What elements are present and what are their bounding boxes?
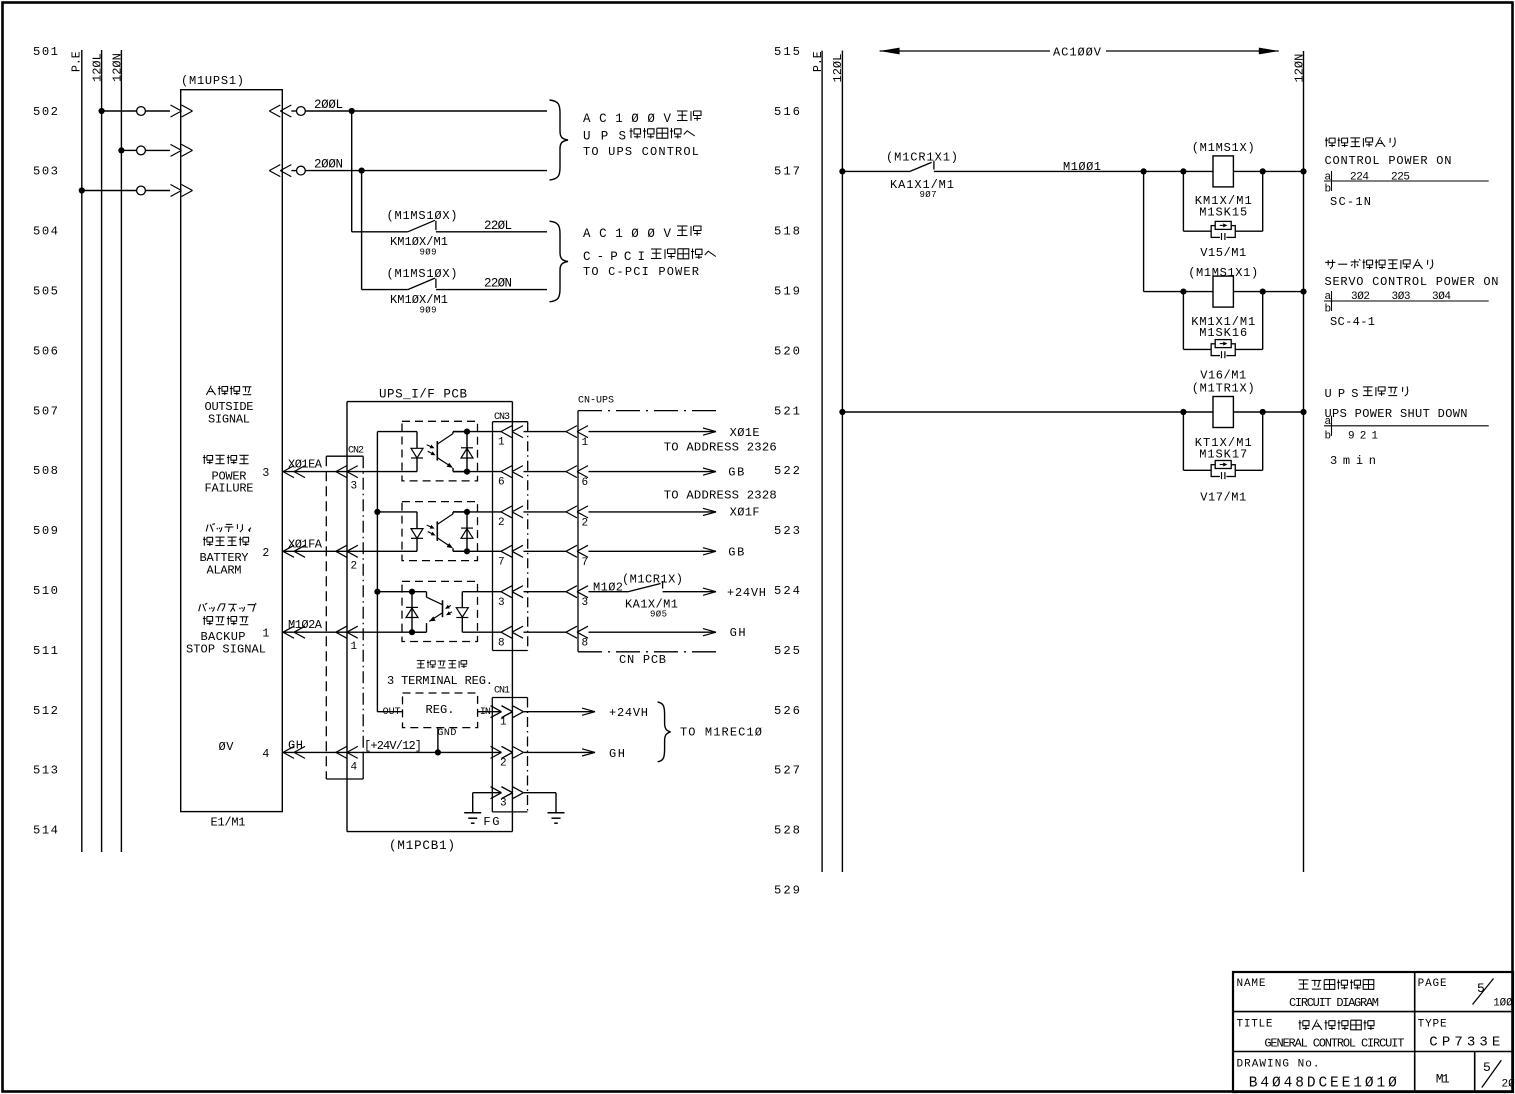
svg-text:GND: GND xyxy=(437,728,456,739)
svg-text:527: 527 xyxy=(774,764,800,778)
arrow into UPS / row 502-503 feed N xyxy=(171,144,193,156)
UPS unit M1UPS1 box xyxy=(181,74,283,830)
svg-text:4: 4 xyxy=(351,761,358,773)
label BATTERY ALARM xyxy=(206,525,208,532)
wire REG GND to GH rail xyxy=(435,728,441,756)
svg-text:M1SK15: M1SK15 xyxy=(1199,206,1247,220)
svg-text:12ØN: 12ØN xyxy=(1292,54,1306,83)
svg-text:9Ø7: 9Ø7 xyxy=(920,190,937,200)
wire GH out CN1 pin2 xyxy=(491,746,596,758)
wire M102A (row 510-511) xyxy=(282,618,426,638)
svg-text:b: b xyxy=(1325,304,1332,316)
bus P.E (right) xyxy=(812,51,825,872)
svg-text:SC-1N: SC-1N xyxy=(1330,195,1371,209)
brace to UPS control xyxy=(550,100,569,180)
svg-text:UPS POWER SHUT DOWN: UPS POWER SHUT DOWN xyxy=(1325,407,1468,421)
svg-text:514: 514 xyxy=(33,824,58,838)
brace to C-PCI power xyxy=(550,221,569,302)
label GB xyxy=(728,465,744,479)
label 3 TERMINAL REG. xyxy=(417,660,425,662)
wire GB (row 510) xyxy=(453,545,716,557)
svg-text:CN3: CN3 xyxy=(494,412,510,423)
svg-text:XØ1FA: XØ1FA xyxy=(288,537,323,551)
wire X01F (row 509) xyxy=(453,506,716,518)
annotation CONTROL POWER ON / SC-1N xyxy=(1325,137,1327,146)
label FG xyxy=(483,815,499,829)
svg-text:(M1MS1X1): (M1MS1X1) xyxy=(1188,266,1258,280)
labels (M1CR1X1) KA1X1/M1 907 xyxy=(886,151,958,201)
svg-text:515: 515 xyxy=(774,45,800,59)
svg-text:6: 6 xyxy=(582,477,589,489)
wire 200L (row 502) xyxy=(291,98,547,112)
svg-text:7: 7 xyxy=(498,556,505,568)
svg-text:M1SK17: M1SK17 xyxy=(1199,448,1247,462)
svg-text:3: 3 xyxy=(582,597,589,609)
svg-text:22ØN: 22ØN xyxy=(484,277,512,291)
AC100V span arrow xyxy=(880,45,1279,59)
svg-text:M1SK16: M1SK16 xyxy=(1199,326,1247,340)
bus 120N (left) xyxy=(110,50,124,852)
svg-text:V15/M1: V15/M1 xyxy=(1200,246,1246,260)
svg-text:2: 2 xyxy=(582,517,589,529)
svg-text:509: 509 xyxy=(33,524,58,538)
relay timer coil M1TR1X KT1X/M1 M1SK17 xyxy=(1192,381,1255,461)
svg-text:7: 7 xyxy=(582,557,589,569)
label M1001 xyxy=(1063,160,1101,174)
svg-text:SIGNAL: SIGNAL xyxy=(208,413,250,427)
svg-text:518: 518 xyxy=(774,225,800,239)
svg-text:TO ADDRESS 2326: TO ADDRESS 2326 xyxy=(664,441,777,455)
svg-text:a: a xyxy=(1325,171,1332,183)
svg-text:UPS: UPS xyxy=(1325,387,1359,401)
title block cell M1 5/20 xyxy=(1436,1060,1515,1091)
svg-text:12ØL: 12ØL xyxy=(831,54,845,83)
arrow into UPS / row 503 feed PE xyxy=(171,185,193,197)
svg-text:503: 503 xyxy=(33,165,58,179)
label BACKUP STOP SIGNAL xyxy=(199,604,201,611)
wire row 503 feed PE xyxy=(82,190,170,192)
svg-text:XØ1EA: XØ1EA xyxy=(288,458,323,472)
svg-text:1: 1 xyxy=(582,437,589,449)
switch KM10X/M1 (220N) xyxy=(362,267,458,316)
wire GH (row 511) xyxy=(462,626,716,638)
svg-text:2: 2 xyxy=(498,517,505,529)
svg-text:1ØØ: 1ØØ xyxy=(1493,998,1513,1010)
wire row 502-503 feed N xyxy=(121,149,170,151)
svg-text:513: 513 xyxy=(33,764,58,778)
svg-text:507: 507 xyxy=(33,404,58,418)
arrow into UPS / row 502 feed L xyxy=(171,105,193,117)
svg-text:b: b xyxy=(1325,184,1332,196)
svg-text:UPS: UPS xyxy=(583,130,626,144)
optocoupler PC2 (battery alarm) xyxy=(377,502,477,561)
wire REG IN to CN1 pin1 +24VH xyxy=(478,706,595,718)
svg-text:512: 512 xyxy=(33,704,58,718)
svg-text:P.E: P.E xyxy=(71,51,84,72)
arrow out of UPS / 200L xyxy=(269,105,291,117)
wire rung 517 left with switch KA1X1/M1 xyxy=(842,161,1183,172)
wire 200N (row 503) xyxy=(291,158,547,172)
svg-text:DRAWING No.: DRAWING No. xyxy=(1237,1059,1320,1071)
bus 120L (left) xyxy=(91,50,105,852)
svg-text:1: 1 xyxy=(498,437,505,449)
svg-text:TO C-PCI POWER: TO C-PCI POWER xyxy=(583,265,699,279)
wire 220N (row 505) xyxy=(436,277,547,291)
svg-text:1: 1 xyxy=(351,641,358,653)
svg-text:519: 519 xyxy=(774,285,800,299)
svg-text:CONTROL POWER ON: CONTROL POWER ON xyxy=(1325,154,1452,168)
wire rung 517 to coil xyxy=(1180,168,1306,174)
surge suppressor V16/M1 xyxy=(1183,292,1262,383)
terminal circle / row 502 feed L xyxy=(137,107,146,116)
junction bus-opto2 xyxy=(374,509,380,515)
wire GB (row 508) xyxy=(453,466,716,478)
title block frame xyxy=(1233,972,1513,1092)
svg-text:524: 524 xyxy=(774,584,800,598)
bus P.E (left) xyxy=(71,50,84,852)
svg-text:TO M1REC1Ø: TO M1REC1Ø xyxy=(680,726,762,740)
switch KM10X/M1 (220L) xyxy=(352,209,458,258)
svg-text:3 TERMINAL REG.: 3 TERMINAL REG. xyxy=(387,674,493,688)
junction on bus / row 503 feed PE xyxy=(79,187,85,193)
label +24VH xyxy=(727,586,766,600)
svg-text:9Ø5: 9Ø5 xyxy=(650,610,667,620)
svg-text:AC1ØØV: AC1ØØV xyxy=(1053,45,1102,59)
svg-text:502: 502 xyxy=(33,105,58,119)
svg-text:(M1MS1X): (M1MS1X) xyxy=(1192,141,1255,155)
junction bus-opto3 xyxy=(374,589,380,595)
svg-text:22ØL: 22ØL xyxy=(484,219,512,233)
svg-text:V16/M1: V16/M1 xyxy=(1200,369,1246,383)
svg-text:CN PCB: CN PCB xyxy=(619,653,666,667)
svg-text:3: 3 xyxy=(500,798,507,810)
svg-text:501: 501 xyxy=(33,45,58,59)
svg-text:2ØØN: 2ØØN xyxy=(314,158,343,172)
svg-text:(M1MS1ØX): (M1MS1ØX) xyxy=(387,209,458,223)
label AC100V power / TO UPS CONTROL xyxy=(583,112,671,126)
svg-text:M1Ø2: M1Ø2 xyxy=(593,581,623,595)
label +24VH (CN1) xyxy=(609,706,648,720)
svg-text:2Ø: 2Ø xyxy=(1502,1079,1515,1091)
svg-text:(M1UPS1): (M1UPS1) xyxy=(181,74,244,88)
labels M102 (M1CR1X) KA1X/M1 905 xyxy=(593,573,683,620)
svg-text:XØ1F: XØ1F xyxy=(730,505,760,519)
surge suppressor V15/M1 xyxy=(1183,171,1262,260)
svg-text:5: 5 xyxy=(1483,1060,1491,1075)
right line-number column 515-529 xyxy=(774,45,800,898)
title block row NAME / CIRCUIT DIAGRAM xyxy=(1237,978,1380,1010)
svg-text:6: 6 xyxy=(498,477,505,489)
relay coil M1MS1X1 KM1X1/M1 M1SK16 xyxy=(1188,266,1258,340)
surge suppressor V17/M1 xyxy=(1183,412,1262,505)
svg-text:M1: M1 xyxy=(1436,1071,1450,1086)
svg-text:(M1MS1ØX): (M1MS1ØX) xyxy=(387,267,458,281)
svg-text:1: 1 xyxy=(500,717,507,729)
svg-text:9Ø9: 9Ø9 xyxy=(420,306,437,316)
regulator REG. box xyxy=(383,693,491,739)
svg-text:9Ø9: 9Ø9 xyxy=(420,248,437,258)
wire rung 519 branch from 517 xyxy=(1144,171,1307,294)
svg-text:TO UPS CONTROL: TO UPS CONTROL xyxy=(583,145,699,159)
svg-text:516: 516 xyxy=(774,105,800,119)
terminal circle / row 503 feed PE xyxy=(137,186,146,195)
svg-text:510: 510 xyxy=(33,584,58,598)
bus 120L (right) xyxy=(831,51,845,872)
junction 120L rung517 xyxy=(839,168,845,174)
wire row 502 feed L xyxy=(102,110,170,112)
svg-text:(M1TR1X): (M1TR1X) xyxy=(1192,381,1255,395)
ground (right) xyxy=(548,813,565,824)
svg-text:OUT: OUT xyxy=(383,707,401,718)
arrow out of UPS / 200N xyxy=(269,165,291,177)
svg-text:SC-4-1: SC-4-1 xyxy=(1330,315,1375,329)
label [+24V/12] xyxy=(364,739,422,753)
svg-text:+24VH: +24VH xyxy=(609,706,648,720)
svg-text:526: 526 xyxy=(774,704,800,718)
svg-text:921: 921 xyxy=(1348,431,1378,443)
svg-text:GB: GB xyxy=(728,546,744,560)
svg-text:2: 2 xyxy=(351,560,358,572)
svg-text:TO ADDRESS 2328: TO ADDRESS 2328 xyxy=(664,488,777,502)
title block cell TYPE CP733E xyxy=(1418,1019,1501,1051)
svg-text:M1ØØ1: M1ØØ1 xyxy=(1063,160,1101,174)
svg-text:525: 525 xyxy=(774,644,800,658)
svg-text:GB: GB xyxy=(728,465,744,479)
svg-text:505: 505 xyxy=(33,285,58,299)
relay coil M1MS1X KM1X/M1 M1SK15 xyxy=(1192,141,1255,220)
svg-text:12ØN: 12ØN xyxy=(110,53,124,82)
junction 200N branch xyxy=(359,168,365,174)
wire X01FA (row 509) xyxy=(282,537,417,557)
svg-text:GH: GH xyxy=(288,738,303,752)
svg-text:528: 528 xyxy=(774,824,800,838)
svg-text:TYPE: TYPE xyxy=(1418,1019,1447,1031)
svg-text:UPS_I/F PCB: UPS_I/F PCB xyxy=(379,388,467,402)
svg-text:224: 224 xyxy=(1350,171,1369,183)
junction on bus / row 502 feed L xyxy=(99,108,105,114)
wire GH 0V (row 512-513) xyxy=(282,738,501,758)
wire 220L (row 504) xyxy=(436,219,547,233)
svg-text:GH: GH xyxy=(730,626,746,640)
svg-text:STOP SIGNAL: STOP SIGNAL xyxy=(186,642,266,656)
svg-text:NAME: NAME xyxy=(1237,978,1266,990)
svg-text:522: 522 xyxy=(774,464,800,478)
svg-text:8: 8 xyxy=(498,637,505,649)
title block cell PAGE 5/100 xyxy=(1418,978,1514,1010)
svg-text:2ØØL: 2ØØL xyxy=(314,98,343,112)
svg-text:FG: FG xyxy=(483,815,499,829)
optocoupler PC3 (backup stop) xyxy=(377,581,477,641)
svg-text:3: 3 xyxy=(498,597,505,609)
label GH (CN1) xyxy=(609,747,625,761)
label GH xyxy=(730,626,746,640)
label 0V xyxy=(219,740,235,754)
svg-text:GENERAL CONTROL CIRCUIT: GENERAL CONTROL CIRCUIT xyxy=(1264,1037,1404,1051)
wire 200N to switch KM10X (vertical branch) xyxy=(361,171,363,290)
label OUTSIDE SIGNAL xyxy=(206,386,211,395)
cable CN-UPS / CN PCB boundary xyxy=(578,396,717,668)
terminal circle 200L xyxy=(297,107,306,116)
junction on bus / row 502-503 feed N xyxy=(118,147,124,153)
svg-text:2: 2 xyxy=(500,757,507,769)
svg-text:PAGE: PAGE xyxy=(1418,978,1447,990)
svg-text:M1Ø2A: M1Ø2A xyxy=(288,618,323,632)
svg-text:504: 504 xyxy=(33,225,58,239)
svg-text:CN-UPS: CN-UPS xyxy=(578,396,614,407)
svg-text:XØ1E: XØ1E xyxy=(730,426,760,440)
wire internal +24V bus to REG OUT xyxy=(377,432,402,712)
svg-text:GH: GH xyxy=(609,747,625,761)
wire X01EA (row 508) xyxy=(282,458,417,478)
connector CN2 xyxy=(326,446,364,780)
bus 120N (right) xyxy=(1292,51,1306,872)
svg-text:4: 4 xyxy=(262,748,269,761)
svg-text:+24VH: +24VH xyxy=(727,586,766,600)
svg-text:529: 529 xyxy=(774,884,800,898)
terminal circle / row 502-503 feed N xyxy=(137,146,146,155)
svg-text:E1/M1: E1/M1 xyxy=(211,816,246,830)
svg-text:12ØL: 12ØL xyxy=(91,53,105,82)
svg-text:520: 520 xyxy=(774,344,800,358)
optocoupler PC1 (power failure) xyxy=(377,421,477,481)
title block row DRAWING No. B4048DCEE1010 xyxy=(1237,1059,1398,1092)
svg-text:523: 523 xyxy=(774,524,800,538)
connector CN1 xyxy=(492,686,527,812)
svg-text:511: 511 xyxy=(33,644,58,658)
UPS box pin numbers 3 2 1 4 xyxy=(262,467,269,761)
label GB xyxy=(728,546,744,560)
junction M1001 branch xyxy=(1141,168,1147,174)
label X01F / TO ADDRESS 2328 xyxy=(664,488,777,519)
svg-text:IN: IN xyxy=(480,707,491,718)
svg-text:ALARM: ALARM xyxy=(207,564,242,578)
wire X01E (row 507) xyxy=(453,426,716,438)
svg-text:521: 521 xyxy=(774,404,800,418)
svg-text:REG.: REG. xyxy=(426,703,455,717)
wire 200L to switch KM10X (vertical branch) xyxy=(351,111,353,232)
svg-text:2: 2 xyxy=(262,547,269,560)
svg-text:(M1CR1X1): (M1CR1X1) xyxy=(886,151,958,165)
svg-text:[+24V/12]: [+24V/12] xyxy=(364,739,422,753)
svg-text:(M1CR1X): (M1CR1X) xyxy=(622,573,683,587)
annotation UPS POWER SHUT DOWN / 921 3min xyxy=(1325,387,1359,401)
svg-text:508: 508 xyxy=(33,464,58,478)
svg-text:ØV: ØV xyxy=(219,740,235,754)
wire +24VH with switch KA1X/M1 905 (row 510-511) xyxy=(462,581,716,598)
svg-text:8: 8 xyxy=(582,638,589,650)
label X01E / TO ADDRESS 2326 xyxy=(664,426,777,455)
svg-text:CIRCUIT DIAGRAM: CIRCUIT DIAGRAM xyxy=(1289,996,1379,1010)
left line-number column 501-514 xyxy=(33,45,58,838)
svg-text:3: 3 xyxy=(351,481,358,493)
svg-text:1: 1 xyxy=(262,628,269,641)
svg-text:b: b xyxy=(1325,431,1332,443)
wire FG frame ground row xyxy=(473,787,556,813)
annotation SERVO CONTROL POWER ON / SC-4-1 xyxy=(1325,261,1335,263)
svg-text:(M1PCB1): (M1PCB1) xyxy=(389,839,455,853)
title block row TITLE / GENERAL CONTROL CIRCUIT xyxy=(1237,1019,1405,1051)
svg-text:225: 225 xyxy=(1391,171,1410,183)
svg-text:CN2: CN2 xyxy=(348,446,364,457)
terminal circle 200N xyxy=(297,166,306,175)
svg-text:TITLE: TITLE xyxy=(1237,1019,1273,1031)
svg-text:FAILURE: FAILURE xyxy=(205,482,254,496)
svg-text:517: 517 xyxy=(774,165,800,179)
PCB board M1PCB1 box UPS_I/F PCB xyxy=(347,388,512,854)
svg-text:506: 506 xyxy=(33,344,58,358)
connector CN3 xyxy=(493,412,528,651)
svg-text:V17/M1: V17/M1 xyxy=(1200,491,1246,505)
svg-text:SERVO CONTROL POWER ON: SERVO CONTROL POWER ON xyxy=(1325,275,1499,289)
brace TO M1REC10 xyxy=(658,702,671,762)
svg-text:CN1: CN1 xyxy=(494,686,510,697)
label POWER FAILURE xyxy=(203,455,205,464)
ground FG (left) xyxy=(464,813,481,824)
wire rung 521 xyxy=(839,409,1306,415)
junction 200L branch xyxy=(349,108,355,114)
svg-text:P.E: P.E xyxy=(812,51,825,72)
svg-text:3: 3 xyxy=(262,467,269,480)
label AC100V power / TO C-PCI POWER xyxy=(583,227,671,241)
